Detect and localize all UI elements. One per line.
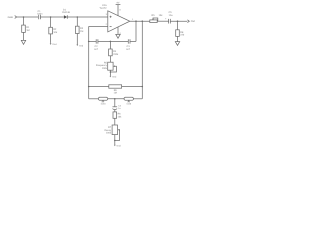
wire bottom rail right (122, 86, 143, 88)
svg-text:4n7: 4n7 (94, 48, 99, 51)
svg-text:1M: 1M (80, 30, 83, 33)
svg-text:Gnd: Gnd (79, 44, 84, 47)
wire capsule row left (89, 98, 99, 100)
svg-text:Gnd: Gnd (52, 43, 57, 46)
wire power pin (117, 5, 119, 16)
node junction C (77, 16, 79, 18)
ground (arrow) under R1 (21, 40, 25, 44)
ground flag Gnd under frequency pot (110, 76, 112, 78)
svg-text:1N4148: 1N4148 (62, 11, 71, 14)
svg-text:+: + (165, 18, 167, 21)
wire ground pin (117, 27, 119, 35)
node output junction E (142, 20, 144, 22)
svg-text:R8: R8 (180, 31, 184, 34)
svg-text:1M: 1M (114, 92, 117, 95)
ground (arrow) under op-amp (116, 34, 120, 38)
svg-text:220k: 220k (113, 53, 119, 56)
svg-text:Out: Out (191, 20, 195, 23)
wire v1 output to feedback rail (135, 21, 137, 41)
svg-text:10k: 10k (53, 31, 58, 34)
connector J-out chevron (187, 20, 189, 23)
wire bottom rail left (89, 86, 109, 88)
wire top rail left (17, 16, 38, 18)
wire pot bottom (109, 70, 111, 76)
wire C5 to out (170, 20, 187, 22)
wire D1 to op-amp +in (67, 16, 108, 18)
svg-text:1M: 1M (26, 29, 29, 32)
node junction L (114, 98, 116, 100)
svg-text:Frequency: Frequency (96, 64, 108, 67)
ground (arrow) under R8 (175, 42, 179, 46)
svg-text:10k: 10k (159, 14, 164, 17)
node junction M (114, 140, 116, 142)
svg-text:10u: 10u (169, 14, 174, 17)
node junction H (110, 71, 112, 73)
wire R6 to pot (114, 118, 116, 125)
resistor R3 (76, 26, 80, 33)
capacitor C1 (39, 15, 41, 19)
resistor R8 (176, 30, 180, 37)
wire R1 to ground (23, 32, 25, 40)
op-amp minus marker (110, 25, 112, 27)
wire feedback rail left (89, 40, 97, 42)
svg-text:C5: C5 (169, 11, 173, 14)
wire feedback rail mid (98, 40, 128, 42)
node junction K (142, 86, 144, 88)
op-amp plus marker (110, 16, 112, 18)
wire R3 drop (76, 17, 78, 26)
wire C1 to D1 (40, 16, 64, 18)
svg-text:3: 3 (106, 13, 108, 16)
node junction A (23, 16, 25, 18)
connector J-in chevron (15, 16, 17, 19)
svg-text:Gnd: Gnd (112, 76, 117, 79)
wire R8 to ground (177, 36, 179, 41)
svg-text:100k: 100k (106, 131, 112, 134)
ground flag Gnd under R3 (76, 44, 78, 45)
svg-text:R3: R3 (80, 27, 84, 30)
wire R8 drop (177, 21, 179, 30)
wire feedback rail right (130, 40, 136, 42)
ground flag Gnd under R2 (50, 42, 52, 43)
wire pot bottom to gnd (114, 135, 116, 145)
svg-text:4n7: 4n7 (126, 48, 131, 51)
svg-text:Decay: Decay (104, 129, 111, 132)
wire R1 drop (23, 17, 25, 25)
svg-text:R7: R7 (108, 126, 112, 129)
resistor R2 (49, 27, 53, 34)
node junction G (110, 41, 112, 43)
ground flag Gnd bottom (114, 145, 116, 147)
capacitor C4 polarized (113, 106, 118, 108)
svg-text:8: 8 (119, 8, 121, 11)
diode D2 (capsule) (98, 97, 107, 100)
svg-text:9V: 9V (117, 1, 120, 4)
svg-text:2: 2 (106, 23, 108, 26)
resistor R1 (22, 25, 26, 32)
node junction N (177, 20, 179, 22)
wire C4 to R6 (114, 110, 116, 112)
wire capsule mid (108, 98, 124, 100)
potentiometer R5 Frequency (108, 62, 113, 70)
wire v2 output to bottom rail (141, 21, 143, 99)
wire R4 drop (109, 41, 111, 49)
svg-text:R9: R9 (114, 89, 118, 92)
capacitor C3 (128, 39, 130, 43)
node junction B (50, 16, 52, 18)
wire pot to C5 (157, 20, 168, 22)
potentiometer R5 output level (150, 20, 157, 23)
svg-text:R5: R5 (152, 14, 156, 17)
potentiometer R7 Decay (112, 125, 117, 135)
svg-text:Gate: Gate (8, 16, 14, 19)
svg-text:220: 220 (180, 34, 185, 37)
resistor R9 (horizontal) (109, 85, 122, 88)
svg-text:1u: 1u (118, 107, 121, 110)
svg-text:4148: 4148 (101, 103, 107, 106)
op-amp U1a triangle (108, 11, 130, 32)
wire left feedback vertical (88, 26, 90, 98)
svg-text:C4: C4 (118, 105, 122, 108)
svg-text:R6: R6 (118, 113, 122, 116)
svg-text:100k: 100k (102, 67, 108, 70)
node junction I (88, 86, 90, 88)
svg-text:R5: R5 (104, 62, 108, 65)
wire -in stub (89, 25, 108, 27)
svg-text:R4: R4 (113, 50, 117, 53)
wire capsule row right (133, 98, 142, 100)
capacitor C2 (96, 39, 98, 43)
svg-text:C2: C2 (95, 45, 99, 48)
node output junction D (135, 20, 137, 22)
svg-text:1: 1 (132, 18, 134, 21)
svg-text:Gnd: Gnd (117, 145, 122, 148)
wire R2 to gnd flag (50, 34, 52, 43)
svg-text:4148: 4148 (126, 103, 132, 106)
svg-text:R1: R1 (26, 26, 30, 29)
svg-text:TL072: TL072 (99, 7, 107, 10)
node junction F (88, 41, 90, 43)
svg-text:C3: C3 (127, 45, 131, 48)
svg-text:100n: 100n (37, 13, 43, 16)
wire C4 drop (114, 99, 116, 107)
resistor R4 (109, 49, 113, 56)
svg-text:R2: R2 (53, 28, 57, 31)
wire R3 to gnd flag (76, 34, 78, 44)
diode D3 (capsule) (124, 97, 133, 100)
wire R4 to pot (109, 56, 111, 62)
resistor R6 (113, 112, 117, 118)
svg-text:10k: 10k (118, 116, 123, 119)
wire output rail (130, 20, 150, 22)
diode D1 (64, 15, 67, 19)
wire R2 drop (50, 17, 52, 27)
